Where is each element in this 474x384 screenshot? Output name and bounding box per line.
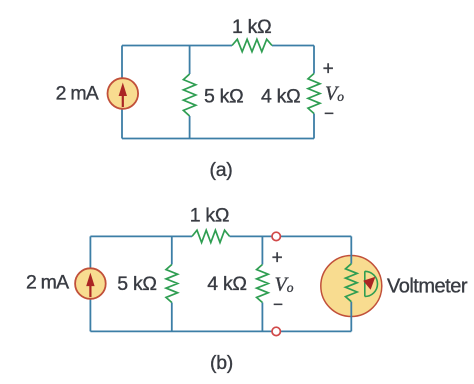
svg-text:1 kΩ: 1 kΩ [232,16,271,38]
svg-text:(b): (b) [210,352,233,374]
svg-text:1 kΩ: 1 kΩ [190,205,229,227]
svg-text:(a): (a) [210,159,233,181]
svg-text:+: + [323,59,334,80]
svg-text:−: − [273,295,283,314]
svg-text:2 mA: 2 mA [26,272,69,294]
svg-text:5 kΩ: 5 kΩ [117,273,156,295]
svg-text:4 kΩ: 4 kΩ [261,85,300,107]
svg-text:−: − [324,104,334,123]
svg-text:Voltmeter: Voltmeter [387,276,468,298]
svg-text:+: + [272,248,283,269]
svg-text:5 kΩ: 5 kΩ [204,85,243,107]
svg-text:4 kΩ: 4 kΩ [207,273,246,295]
svg-text:2 mA: 2 mA [56,82,99,104]
